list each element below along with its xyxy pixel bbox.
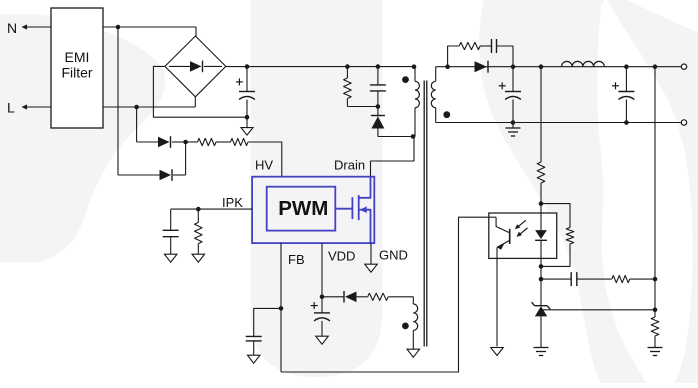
inductor L1 output [562,61,605,66]
wire secondary bottom rail [436,122,682,124]
svg-text:GND: GND [379,248,408,263]
junction dot comp branch [539,277,544,282]
svg-text:Filter: Filter [61,65,92,81]
junction dot FB branch [279,306,284,311]
capacitor C4 fb [246,308,281,355]
compensation C8 [541,272,577,286]
label Drain [334,158,365,173]
junction dot cap C1 bottom [245,115,250,120]
junction dot out cap1 top [511,64,516,69]
ground fb cap [247,355,260,363]
PWM inner block [267,187,336,231]
opto led arrows [515,220,528,237]
svg-text:HV: HV [255,158,273,173]
capacitor C2 snubber [370,67,386,107]
resistor R9 divider2 [651,67,659,348]
svg-text:EMI: EMI [65,49,90,65]
wire shunt [540,266,542,305]
transformer core [424,81,427,347]
svg-text:Drain: Drain [334,158,365,173]
decorative watermark left blob [0,14,165,262]
svg-text:IPK: IPK [222,195,243,210]
shunt regulator U3 tl431 [532,302,551,347]
label IPK [222,195,243,210]
wire to primary bottom [378,136,414,138]
junction dot L rail [134,105,139,110]
decorative watermark right crescent [479,0,698,388]
resistor R1 startup [186,138,216,145]
transformer aux winding [413,297,417,349]
junction dot divider1 top [539,64,544,69]
wire FB down [280,243,282,372]
wire bridge bottom stub [194,97,196,107]
wire bridge left to cap bottom [153,66,247,117]
resistor R3 snubber [344,67,352,107]
junction dot primary bottom [411,134,416,139]
junction dot VDD [320,295,325,300]
junction dot out cap1 bottom [511,120,516,125]
capacitor C5 vdd [311,297,330,336]
snubber RC secondary [448,39,513,67]
junction dot snubber R top [345,64,350,69]
junction dot ref [653,308,658,313]
diode D1 upper [137,136,186,148]
node L input arrow [22,104,52,109]
capacitor C6 out [499,67,521,123]
ground ipk cap [164,254,177,262]
label N [7,20,17,36]
transformer primary winding [415,67,419,137]
wire HV [248,142,282,177]
earth ground tl431 [534,348,549,356]
junction dot N rail [116,25,121,30]
polarity dot secondary [443,111,450,118]
svg-text:VDD: VDD [328,249,355,264]
ground vdd cap [316,336,329,344]
PWM controller U1 outer box [252,177,374,243]
resistor R2 startup [216,138,248,145]
svg-text:L: L [7,100,15,116]
wire top rail B+ [226,66,416,68]
wire tl431 ref [541,309,655,311]
earth ground secondary [506,123,521,137]
capacitor C7 out [612,67,634,123]
label FB [288,252,305,267]
capacitor C1 bulk [236,67,255,118]
wire L rail [103,106,195,108]
junction dot D1 D2 [183,140,188,145]
wire N drop [117,27,119,175]
junction dot snubber bottom [376,104,381,109]
optocoupler U2 box [489,213,557,258]
wire secondary top rail [436,66,682,68]
transformer secondary winding [431,67,435,123]
junction dot snubber C top [376,64,381,69]
capacitor C3 ipk [163,209,179,254]
label L [7,100,15,116]
terminal output plus [681,64,686,69]
bridge rectifier BR1 [165,36,226,97]
resistor R4 ipk [195,209,203,254]
wire drain path [371,137,415,177]
mosfet Q1 internal [335,177,370,243]
diode D4 vdd [322,291,357,303]
terminal output minus [681,120,686,125]
wire L drop [136,107,138,142]
earth ground divider2 [648,348,663,356]
compensation R8 [577,276,655,283]
svg-text:PWM: PWM [278,197,328,220]
ground aux [407,349,420,357]
junction dot cap C1 top [245,64,250,69]
junction dot opto bottom [539,264,544,269]
label GND [379,248,408,263]
decorative watermark middle band [251,0,383,377]
wire snubber bottom [347,106,378,108]
svg-text:N: N [7,20,17,36]
node N input arrow [22,24,52,29]
junction dot comp right [653,277,658,282]
wire IPK [171,208,252,210]
diode D3 clamp [371,107,385,137]
junction dot IPK [196,207,201,212]
junction dot opto top [539,201,544,206]
junction dot primary top [412,64,417,69]
wire N rail [103,27,196,37]
wire VDD down [321,243,323,297]
junction dot divider2 top [653,64,658,69]
junction dot snubber sec [445,64,450,69]
junction dot out cap2 top [624,64,629,69]
diode D2 lower [118,142,186,181]
opto phototransistor [489,217,510,346]
junction dot out cap2 bottom [624,120,629,125]
diode D5 output [475,61,489,73]
label HV [255,158,273,173]
wire cap bottom down arrow [241,117,253,135]
ground opto emitter [491,348,504,356]
polarity dot aux [402,323,409,330]
resistor R5 vdd [357,293,414,300]
ground ipk res [192,254,205,262]
EMI filter block [51,8,103,128]
opto led diode [535,204,547,267]
resistor R6 divider1 [537,67,545,204]
resistor R7 opto parallel [541,204,574,267]
polarity dot primary [402,76,409,83]
ground GND pin [365,243,378,272]
label PWM [278,197,328,220]
svg-text:FB: FB [288,252,305,267]
wire FB to opto [281,217,489,372]
label VDD [328,249,355,264]
